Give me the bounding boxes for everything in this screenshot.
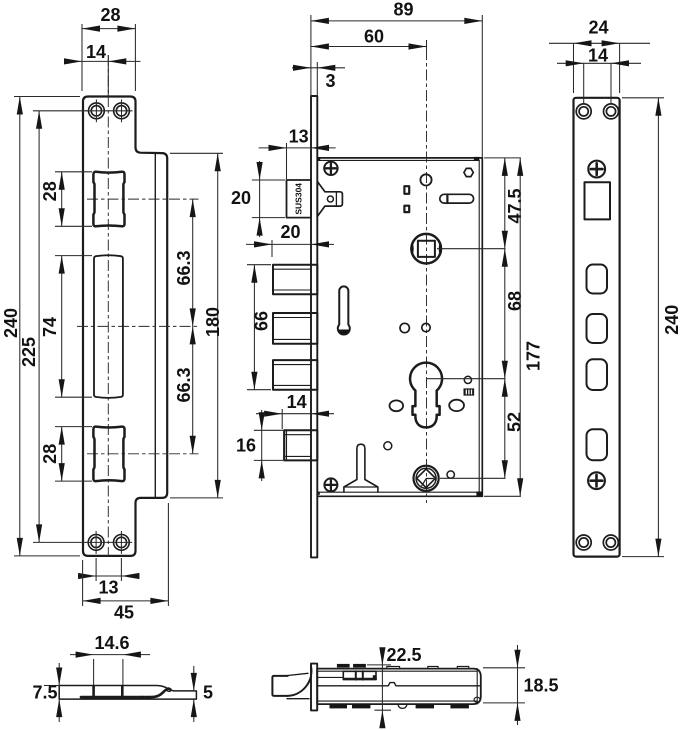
svg-text:SUS304: SUS304 bbox=[293, 183, 303, 215]
latch bottom line bbox=[287, 698, 309, 700]
case corner tick top-left bbox=[317, 157, 320, 160]
dim 240 right bbox=[622, 98, 682, 557]
svg-text:177: 177 bbox=[524, 341, 544, 371]
case top edge bbox=[317, 157, 482, 159]
screw hole crosshairs bbox=[85, 100, 133, 554]
small circle near bottom hub bbox=[447, 471, 454, 478]
svg-text:14.6: 14.6 bbox=[94, 633, 129, 653]
case bottom view outline bbox=[317, 669, 481, 705]
latch bolt head SUS304 bbox=[287, 180, 312, 218]
ellipse right of cylinder bbox=[449, 400, 464, 411]
latch tail line bbox=[317, 676, 343, 678]
bottom bump bbox=[398, 704, 407, 708]
dim 20 latch height bbox=[231, 161, 285, 237]
dim 60 top bbox=[311, 26, 427, 49]
dim 7.5 bbox=[32, 663, 62, 722]
screw hole top-right bbox=[114, 103, 130, 119]
keeper cutout bottom bbox=[93, 427, 124, 482]
dim 13 bottom bbox=[78, 558, 140, 598]
keeper cutout top bbox=[93, 172, 124, 227]
svg-text:28: 28 bbox=[40, 181, 60, 201]
case screw top-left bbox=[324, 162, 337, 175]
latch tip block bbox=[272, 676, 287, 696]
dim 14 aux bolt bbox=[256, 392, 334, 429]
dim 66.3 lower right bbox=[174, 326, 196, 453]
dim 68 bbox=[502, 249, 525, 379]
small circle bottom-left bbox=[384, 442, 392, 450]
case screw bottom-left bbox=[324, 478, 337, 491]
svg-text:68: 68 bbox=[505, 291, 525, 311]
faceplate bar bbox=[311, 664, 317, 711]
deadbolt slot bbox=[94, 255, 123, 398]
dim 18.5 bbox=[483, 645, 559, 725]
circle mid-left bbox=[400, 323, 409, 332]
spindle hub bbox=[410, 234, 442, 264]
svg-text:24: 24 bbox=[588, 17, 608, 37]
dim 14 top bbox=[64, 42, 141, 96]
latch follower behind faceplate bbox=[317, 181, 342, 216]
dim 14.6 bbox=[70, 633, 150, 685]
svg-text:240: 240 bbox=[662, 305, 682, 335]
deadbolt prong 1 bbox=[273, 265, 317, 390]
svg-text:28: 28 bbox=[40, 444, 60, 464]
keeper hole center line top bbox=[87, 198, 199, 200]
guide block bbox=[343, 671, 376, 679]
faceplate screw hole bottom-right bbox=[603, 535, 618, 550]
svg-text:66: 66 bbox=[252, 311, 272, 331]
bolt hole 3 bbox=[587, 359, 608, 390]
svg-text:3: 3 bbox=[325, 71, 335, 91]
ellipse left of cylinder bbox=[390, 400, 404, 411]
dim 28 keeper top bbox=[40, 172, 92, 227]
svg-text:47.5: 47.5 bbox=[505, 188, 525, 223]
capsule slot right bbox=[440, 194, 474, 203]
phillips screw top bbox=[588, 161, 605, 178]
phillips screw bottom bbox=[588, 472, 605, 489]
svg-text:240: 240 bbox=[1, 308, 21, 338]
deadbolt prong 2 bbox=[273, 313, 317, 344]
svg-text:16: 16 bbox=[236, 436, 256, 456]
case inner bottom line bbox=[317, 700, 477, 702]
faceplate screw hole top-right bbox=[604, 104, 619, 119]
svg-text:13: 13 bbox=[289, 127, 309, 147]
faceplate outline bbox=[574, 98, 620, 557]
screw hole top-left bbox=[88, 103, 129, 550]
dim 66 deadbolt bbox=[247, 265, 272, 390]
case mid line with bump bbox=[317, 683, 481, 686]
strike plate outline bbox=[83, 97, 167, 556]
svg-text:18.5: 18.5 bbox=[524, 676, 559, 696]
top slim fittings bbox=[387, 666, 400, 668]
case inner right edge bbox=[476, 669, 478, 705]
svg-text:5: 5 bbox=[203, 682, 213, 702]
T pedestal stop bbox=[344, 444, 378, 492]
svg-text:14: 14 bbox=[287, 392, 307, 412]
svg-text:180: 180 bbox=[203, 307, 223, 337]
svg-text:45: 45 bbox=[114, 603, 134, 623]
dim 45 bottom bbox=[83, 503, 169, 623]
svg-text:14: 14 bbox=[588, 45, 608, 65]
dim 22.5 bbox=[367, 645, 422, 728]
svg-text:225: 225 bbox=[19, 337, 39, 367]
strike plate bend line bbox=[154, 153, 156, 498]
svg-text:89: 89 bbox=[393, 0, 413, 20]
svg-text:66.3: 66.3 bbox=[174, 367, 194, 402]
dim 177 bbox=[517, 158, 543, 496]
comb stamp icon bbox=[464, 388, 475, 395]
faceplate edge-on bbox=[311, 96, 317, 557]
faceplate screw hole bottom-left bbox=[576, 535, 591, 550]
svg-text:52: 52 bbox=[505, 412, 525, 432]
case corner tick bottom-left bbox=[317, 492, 319, 495]
screw hole bottom-right bbox=[114, 535, 130, 551]
dim 13 latch bbox=[259, 127, 336, 180]
dim 66.3 upper right bbox=[174, 199, 196, 326]
circle upper bbox=[420, 174, 431, 185]
circle mid-axis bbox=[422, 323, 430, 331]
deadbolt prong 3 bbox=[273, 360, 317, 390]
plate center line vertical bbox=[107, 55, 109, 556]
plate center line horizontal bbox=[77, 325, 199, 327]
folded metal band bbox=[81, 689, 169, 698]
dim 28 keeper bottom bbox=[40, 427, 92, 482]
latch window bbox=[585, 182, 611, 219]
svg-text:20: 20 bbox=[280, 222, 300, 242]
rivet dots bbox=[141, 696, 144, 698]
svg-text:14: 14 bbox=[86, 42, 106, 62]
dim 5 bbox=[191, 666, 213, 722]
dim 28 top bbox=[82, 5, 135, 91]
bottom solid tabs bbox=[330, 704, 348, 708]
dim 3 faceplate bbox=[292, 62, 345, 96]
svg-text:66.3: 66.3 bbox=[174, 250, 194, 285]
bolt hole 4 bbox=[587, 429, 608, 460]
latch bevel arc bbox=[288, 666, 312, 696]
screw hole bottom-left bbox=[88, 535, 104, 551]
svg-text:20: 20 bbox=[231, 188, 251, 208]
dim 74 left bbox=[40, 256, 92, 398]
bottom spindle hub bbox=[414, 466, 439, 491]
corner rivet bbox=[474, 697, 480, 702]
small rect pair bbox=[404, 186, 409, 194]
auxiliary bolt bbox=[284, 430, 317, 460]
axis center line bbox=[426, 49, 428, 503]
case corner block bottom-right bbox=[476, 492, 482, 497]
faceplate screw hole top-left bbox=[576, 104, 618, 550]
keeper hole center line bottom bbox=[87, 453, 199, 455]
svg-text:60: 60 bbox=[364, 26, 384, 46]
right extension lines bbox=[484, 157, 521, 159]
bent tab left bbox=[92, 686, 95, 696]
thermometer slot bbox=[338, 286, 350, 334]
case corner block top-right bbox=[474, 157, 479, 161]
dim 14 screws bbox=[557, 45, 641, 103]
latch follower pin bbox=[327, 196, 333, 202]
case inner top line bbox=[317, 670, 477, 672]
latch top slope bbox=[284, 673, 308, 676]
svg-text:13: 13 bbox=[98, 578, 118, 598]
svg-text:28: 28 bbox=[100, 5, 120, 25]
dim 225 left bbox=[19, 111, 87, 543]
dim 240 left bbox=[1, 97, 80, 556]
section outline bbox=[59, 686, 196, 700]
svg-text:7.5: 7.5 bbox=[32, 683, 57, 703]
dim 52 bbox=[502, 379, 525, 479]
hex nut top right bbox=[464, 168, 473, 176]
small circle right bbox=[464, 376, 471, 383]
case right edge bbox=[481, 158, 483, 496]
dim 24 top bbox=[549, 17, 650, 93]
curl end bbox=[167, 689, 171, 692]
svg-text:22.5: 22.5 bbox=[387, 645, 422, 665]
dim 16 aux bolt height bbox=[236, 410, 283, 481]
dim 180 right bbox=[170, 153, 223, 498]
dim 89 top bbox=[311, 0, 482, 157]
bolt hole 2 bbox=[587, 314, 608, 343]
bent tab right bbox=[121, 686, 124, 696]
dim 20 deadbolt throw bbox=[246, 222, 334, 257]
dim 47.5 bbox=[502, 158, 525, 478]
case bottom edge bbox=[317, 495, 482, 497]
bolt hole 1 bbox=[587, 265, 608, 294]
top solid tabs bbox=[337, 664, 350, 668]
svg-text:74: 74 bbox=[40, 317, 60, 337]
euro cylinder hole bbox=[410, 363, 442, 428]
